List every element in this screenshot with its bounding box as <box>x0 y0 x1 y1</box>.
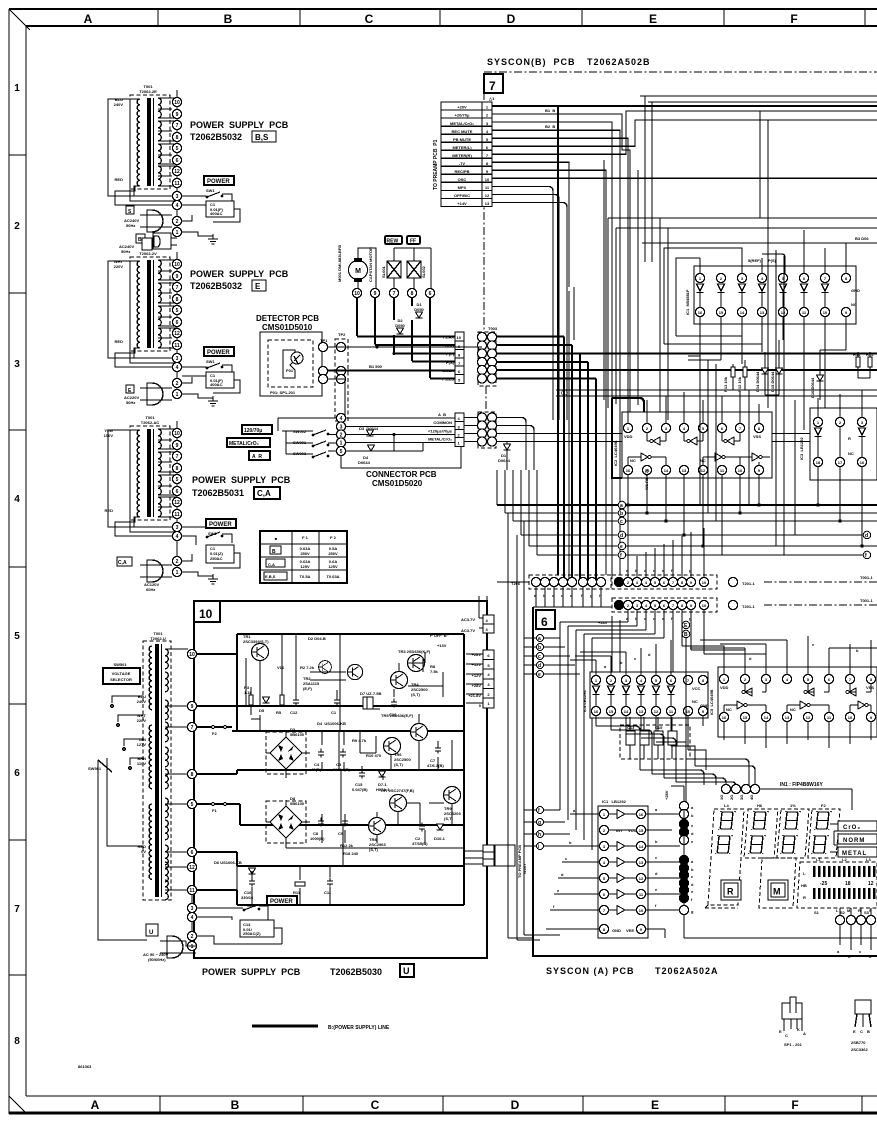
box 6 SYSCON(A) outline <box>533 607 877 976</box>
svg-text:VDD: VDD <box>720 685 729 690</box>
top-right horizontals <box>608 96 877 243</box>
svg-text:8: 8 <box>191 772 194 778</box>
svg-text:47/6.3(B): 47/6.3(B) <box>427 763 444 768</box>
svg-text:REW: REW <box>387 239 399 245</box>
svg-text:SYSCON (A) PCB: SYSCON (A) PCB <box>546 966 635 976</box>
svg-text:IC1 LB1292: IC1 LB1292 <box>602 799 627 804</box>
SYSCON(B) PCB box 7 <box>484 57 877 330</box>
svg-text:U: U <box>149 930 153 936</box>
svg-text:D10-1: D10-1 <box>434 836 446 841</box>
svg-text:TR5 2SD636(E,F): TR5 2SD636(E,F) <box>381 713 414 718</box>
IC1 wiring loops <box>664 230 846 430</box>
IC2 LC4049B <box>612 392 772 555</box>
svg-text:B1 B: B1 B <box>545 108 555 113</box>
svg-text:B: B <box>138 237 142 243</box>
svg-text:METAL/CrO₂: METAL/CrO₂ <box>229 441 259 447</box>
wires from preamp connector <box>492 106 877 575</box>
svg-text:GND: GND <box>700 703 709 708</box>
svg-text:g: g <box>538 820 541 826</box>
svg-text:4G: 4G <box>749 795 754 800</box>
transistor TR2 2SA1115 <box>277 664 363 691</box>
svg-text:B,S: B,S <box>255 133 269 142</box>
svg-text:13: 13 <box>760 310 765 315</box>
svg-text:3G: 3G <box>739 795 744 800</box>
svg-text:7: 7 <box>393 291 396 297</box>
svg-text:e: e <box>620 544 623 550</box>
wire left loop verticals of syscon B interior <box>608 218 616 408</box>
svg-text:6: 6 <box>429 291 432 297</box>
svg-text:2G: 2G <box>729 795 734 800</box>
svg-text:HB: HB <box>801 883 807 888</box>
detector pins <box>318 342 327 351</box>
svg-text:12: 12 <box>806 715 811 720</box>
svg-text:A B: A B <box>438 412 446 417</box>
svg-text:220V: 220V <box>137 718 147 723</box>
svg-text:D050: D050 <box>414 307 424 312</box>
svg-text:(S,T): (S,T) <box>411 692 421 697</box>
IC3 LB1292 <box>799 390 877 548</box>
svg-text:POWER SUPPLY PCB: POWER SUPPLY PCB <box>190 120 289 130</box>
connector table TO PREAMP PCB P1 <box>433 102 492 207</box>
svg-text:(E,F): (E,F) <box>303 686 313 691</box>
svg-text:1%: 1% <box>790 803 796 808</box>
svg-text:SL002: SL002 <box>421 265 426 278</box>
svg-text:B: B <box>684 632 688 638</box>
svg-text:METAL: METAL <box>842 851 867 857</box>
tape counter bars <box>797 857 877 915</box>
plug note B with cover <box>119 233 177 254</box>
svg-text:1: 1 <box>14 83 20 94</box>
svg-text:16: 16 <box>860 460 865 465</box>
transistor D2 D04-B <box>308 636 331 673</box>
box10 misc verticals <box>237 634 464 905</box>
wire row5 <box>492 138 628 575</box>
svg-text:CMS01D5010: CMS01D5010 <box>262 323 313 332</box>
display input pins <box>719 782 852 810</box>
svg-text:17: 17 <box>838 460 843 465</box>
svg-text:R12 2k: R12 2k <box>340 843 354 848</box>
svg-text:POWER: POWER <box>209 522 232 528</box>
svg-text:D2 D04-B: D2 D04-B <box>308 636 326 641</box>
svg-text:M: M <box>355 268 361 275</box>
svg-text:VCC: VCC <box>628 828 637 833</box>
svg-text:2: 2 <box>176 219 179 225</box>
svg-text:F: F <box>791 1098 798 1112</box>
svg-text:+28V: +28V <box>664 790 669 800</box>
svg-text:10: 10 <box>702 580 707 585</box>
transistor package SP1-201 <box>779 997 806 1047</box>
ground <box>208 396 218 406</box>
svg-text:15: 15 <box>719 310 724 315</box>
svg-text:CMS01D5020: CMS01D5020 <box>372 479 423 488</box>
svg-text:POWER SUPPLY PCB: POWER SUPPLY PCB <box>192 475 291 485</box>
svg-text:9: 9 <box>191 704 194 710</box>
svg-text:OFF/B/C: OFF/B/C <box>454 193 470 198</box>
svg-text:0V: 0V <box>141 849 146 854</box>
svg-text:1: 1 <box>176 570 179 576</box>
motor pins <box>352 288 434 297</box>
svg-text:AC3.7V: AC3.7V <box>461 617 475 622</box>
svg-text:CAPSTAN MOTOR: CAPSTAN MOTOR <box>368 247 373 282</box>
signal labels <box>428 412 453 442</box>
svg-text:250V: 250V <box>328 551 338 556</box>
wires cells right <box>464 418 877 471</box>
IC1 bottom resistors diodes <box>723 340 846 400</box>
wire mid right bus <box>608 218 877 243</box>
svg-text:10: 10 <box>823 310 828 315</box>
svg-text:RED: RED <box>105 508 114 513</box>
svg-text:M: M <box>773 887 781 897</box>
svg-text:W1 R5 4.7k: W1 R5 4.7k <box>644 468 649 490</box>
svg-text:D7 UZ-7.5B: D7 UZ-7.5B <box>360 691 381 696</box>
diode D6 row <box>214 860 333 900</box>
detector signal name stack <box>328 332 877 580</box>
svg-text:L1: L1 <box>816 857 821 862</box>
tape type boxes <box>830 821 877 857</box>
svg-text:SELECTOR: SELECTOR <box>110 677 132 682</box>
photo sensor P01 <box>283 350 295 378</box>
connector T206 <box>497 575 611 607</box>
svg-text:+20V: +20V <box>457 105 467 110</box>
svg-text:POWER: POWER <box>207 179 230 185</box>
svg-text:d: d <box>620 533 623 539</box>
svg-text:12: 12 <box>701 468 706 473</box>
wire +28V top right <box>640 96 877 102</box>
svg-text:10: 10 <box>199 607 213 621</box>
svg-text:2: 2 <box>176 559 179 565</box>
svg-text:60Hz: 60Hz <box>146 587 155 592</box>
wires motor pins down <box>357 298 430 379</box>
svg-text:d: d <box>865 533 868 539</box>
svg-text:SW1: SW1 <box>206 359 215 364</box>
svg-text:TO PREAMP PCB P1: TO PREAMP PCB P1 <box>433 139 439 190</box>
svg-text:REC/PB: REC/PB <box>454 169 469 174</box>
svg-text:14: 14 <box>624 709 629 714</box>
POWER box <box>204 347 234 356</box>
svg-text:13: 13 <box>785 715 790 720</box>
svg-text:F1: F1 <box>212 808 217 813</box>
inverters <box>628 432 770 466</box>
svg-text:110V: 110V <box>137 761 146 766</box>
fuse rating table <box>260 531 347 583</box>
svg-text:12: 12 <box>189 865 195 871</box>
svg-text:SW1: SW1 <box>206 188 215 193</box>
svg-text:16: 16 <box>698 310 703 315</box>
svg-text:3: 3 <box>176 525 179 531</box>
svg-text:(50/60Hz): (50/60Hz) <box>148 957 166 962</box>
svg-text:4: 4 <box>14 494 20 505</box>
svg-text:T0.5A: T0.5A <box>300 574 311 579</box>
box6 entry wire fan <box>545 586 766 850</box>
svg-text:A: A <box>84 12 93 26</box>
svg-text:T003: T003 <box>488 326 498 331</box>
svg-text:E: E <box>779 1029 782 1034</box>
svg-text:12: 12 <box>639 876 644 881</box>
svg-text:8: 8 <box>411 291 414 297</box>
svg-text:+13V: +13V <box>437 643 447 648</box>
svg-text:R5: R5 <box>276 710 282 715</box>
small parts row <box>352 770 391 793</box>
svg-text:NORM: NORM <box>843 838 865 844</box>
svg-text:F2: F2 <box>821 803 826 808</box>
wire PSU2 primary loop <box>108 261 172 367</box>
svg-text:13: 13 <box>485 201 490 206</box>
svg-text:C: C <box>785 1033 788 1038</box>
svg-text:L2: L2 <box>842 857 847 862</box>
svg-text:-7V: -7V <box>459 161 466 166</box>
transformer pins (U) <box>187 649 196 950</box>
svg-text:13: 13 <box>682 468 687 473</box>
wire plug to pins <box>147 215 172 227</box>
svg-text:12: 12 <box>654 709 659 714</box>
svg-text:9: 9 <box>374 291 377 297</box>
display drive wire fan <box>596 726 755 785</box>
IC5 LC4049B (box6) <box>690 636 877 748</box>
svg-text:15: 15 <box>609 709 614 714</box>
svg-text:7: 7 <box>489 79 496 93</box>
svg-text:6: 6 <box>541 615 548 629</box>
svg-text:10: 10 <box>189 652 195 658</box>
svg-text:VEE: VEE <box>626 928 634 933</box>
svg-text:c: c <box>538 654 541 660</box>
svg-text:1: 1 <box>176 230 179 236</box>
svg-text:VOLTAGE: VOLTAGE <box>112 671 131 676</box>
svg-text:B:(POWER SUPPLY) LINE: B:(POWER SUPPLY) LINE <box>328 1025 390 1031</box>
svg-text:6: 6 <box>191 850 194 856</box>
svg-text:D5: D5 <box>259 708 265 713</box>
svg-text:3: 3 <box>176 194 179 200</box>
transistor TR6 2SC2500 <box>366 738 444 769</box>
POWER box <box>206 519 236 528</box>
power supply PCB block C,A <box>104 415 291 592</box>
svg-text:POWER SUPPLY PCB: POWER SUPPLY PCB <box>190 269 289 279</box>
svg-text:14: 14 <box>740 310 745 315</box>
svg-text:T201-1: T201-1 <box>742 604 755 609</box>
svg-text:CONNECTOR PCB: CONNECTOR PCB <box>366 470 437 479</box>
svg-text:D050: D050 <box>395 323 405 328</box>
svg-text:METER(R): METER(R) <box>452 153 472 158</box>
svg-text:S2: S2 <box>840 910 846 915</box>
svg-text:2SC3362: 2SC3362 <box>851 1047 868 1052</box>
svg-text:T2062A502B: T2062A502B <box>587 57 651 67</box>
box10 right AC output cells <box>461 596 494 633</box>
svg-text:A: A <box>803 1031 806 1036</box>
svg-text:400AC: 400AC <box>210 211 223 216</box>
svg-text:50Hz: 50Hz <box>121 249 130 254</box>
transistor TR3 2SD636 <box>398 649 439 674</box>
svg-text:M001 DMI-883LBFB: M001 DMI-883LBFB <box>337 245 342 282</box>
svg-text:240V: 240V <box>137 699 147 704</box>
connector T201-1 row1 <box>612 528 877 589</box>
svg-text:18: 18 <box>816 460 821 465</box>
diode D1 D0644 <box>506 442 508 471</box>
svg-text:D16 D0644: D16 D0644 <box>810 377 815 398</box>
svg-text:5: 5 <box>191 802 194 808</box>
svg-text:b: b <box>538 645 541 651</box>
wire left rail of box6 <box>508 513 560 940</box>
grid letters bottom <box>91 1098 799 1112</box>
svg-text:-25: -25 <box>820 881 827 887</box>
svg-text:△1: △1 <box>488 96 495 101</box>
svg-text:T2062B5032: T2062B5032 <box>190 281 242 291</box>
svg-text:D: D <box>507 12 516 26</box>
bus wires a-g <box>497 470 877 559</box>
svg-text:7.5k: 7.5k <box>430 669 439 674</box>
wire horizontals below IC1 <box>556 390 877 396</box>
wire PSU3 primary loop <box>108 430 172 536</box>
svg-text:T2062A502A: T2062A502A <box>655 966 719 976</box>
fuse F1 F2 <box>212 726 227 814</box>
svg-text:NC: NC <box>851 302 857 307</box>
svg-text:8: 8 <box>14 1036 20 1047</box>
svg-text:T2062-U: T2062-U <box>150 636 166 641</box>
svg-text:T2062-2V: T2062-2V <box>139 251 157 256</box>
transistor TR5 2SD636(E,F) <box>381 713 428 741</box>
svg-text:D0644: D0644 <box>498 458 511 463</box>
svg-text:C,A: C,A <box>268 562 275 567</box>
svg-text:4: 4 <box>191 915 194 921</box>
svg-text:R: R <box>848 436 851 441</box>
transformer T001 (U) <box>143 631 188 900</box>
bridge rectifier D3 <box>266 727 310 778</box>
svg-text:CrO₂: CrO₂ <box>843 825 861 831</box>
svg-text:15: 15 <box>743 715 748 720</box>
svg-text:125V: 125V <box>300 564 310 569</box>
junction pin column <box>664 621 877 938</box>
svg-text:12: 12 <box>485 193 490 198</box>
svg-text:T2062B5030: T2062B5030 <box>330 967 382 977</box>
svg-text:10: 10 <box>848 715 853 720</box>
svg-text:1: 1 <box>176 392 179 398</box>
solenoid SL001 REW <box>387 261 401 278</box>
box10 right DC cells <box>466 650 494 708</box>
svg-text:D4 US1006-KB: D4 US1006-KB <box>317 721 346 726</box>
svg-text:D6 US1006-KB: D6 US1006-KB <box>214 860 242 865</box>
svg-text:C15: C15 <box>655 725 663 730</box>
pins 3,4,2,1 <box>172 187 181 237</box>
svg-text:a: a <box>538 636 541 642</box>
svg-text:47/35(B): 47/35(B) <box>412 841 428 846</box>
long vertical bus bundle <box>569 96 795 580</box>
svg-text:6: 6 <box>14 768 20 779</box>
svg-text:2: 2 <box>14 221 20 232</box>
resistor pair right edge <box>853 352 874 378</box>
svg-text:D0644: D0644 <box>358 460 371 465</box>
svg-text:c: c <box>620 519 623 525</box>
svg-text:V16: V16 <box>277 665 285 670</box>
svg-text:D: D <box>511 1098 520 1112</box>
svg-text:16: 16 <box>722 715 727 720</box>
svg-text:F 2: F 2 <box>330 535 337 540</box>
capacitor C1 <box>206 201 234 217</box>
svg-text:A: A <box>91 1098 100 1112</box>
svg-text:+14V: +14V <box>457 201 467 206</box>
svg-text:SP1 - 201: SP1 - 201 <box>784 1042 803 1047</box>
IC2 pin stubs <box>628 392 759 555</box>
svg-text:b: b <box>620 511 623 517</box>
svg-text:IC5 LC4049B: IC5 LC4049B <box>709 689 714 715</box>
diode D4 D0644 <box>368 445 375 451</box>
solenoid SL002 FF <box>407 261 421 278</box>
svg-text:11: 11 <box>189 888 195 894</box>
svg-text:DETECTOR PCB: DETECTOR PCB <box>256 314 319 323</box>
svg-text:VDD: VDD <box>624 434 633 439</box>
caps after D8 <box>310 818 354 849</box>
svg-text:10: 10 <box>457 335 462 340</box>
svg-text:T2062B5032: T2062B5032 <box>190 132 242 142</box>
svg-text:D14 D0644: D14 D0644 <box>755 371 760 392</box>
svg-text:NC: NC <box>692 699 698 704</box>
svg-text:D15 D0644: D15 D0644 <box>770 371 775 392</box>
svg-text:E: E <box>649 12 657 26</box>
svg-text:5: 5 <box>14 631 20 642</box>
box10 internal rails <box>196 634 464 905</box>
svg-text:INT: INT <box>616 828 623 833</box>
svg-text:METER(L): METER(L) <box>452 145 472 150</box>
svg-text:SW501: SW501 <box>88 766 102 771</box>
M dashed + box <box>759 858 796 908</box>
svg-text:220V: 220V <box>114 264 124 269</box>
svg-text:NC: NC <box>726 707 732 712</box>
svg-text:TP2: TP2 <box>338 332 346 337</box>
svg-text:5(REF): 5(REF) <box>748 258 762 263</box>
svg-text:5: 5 <box>340 449 343 455</box>
transistor TR8 2SC2963 <box>343 818 446 857</box>
wire row4 <box>492 130 620 575</box>
svg-text:IC1 M54581P: IC1 M54581P <box>685 289 690 315</box>
svg-text:VSS: VSS <box>753 434 761 439</box>
svg-text:10: 10 <box>738 468 743 473</box>
svg-text:120/70μ: 120/70μ <box>244 428 262 434</box>
svg-text:2: 2 <box>191 934 194 940</box>
svg-text:14: 14 <box>639 844 644 849</box>
svg-text:16: 16 <box>639 812 644 817</box>
wire row2 <box>492 114 630 160</box>
svg-text:C11: C11 <box>324 890 332 895</box>
svg-text:MPX: MPX <box>458 185 467 190</box>
svg-text:4: 4 <box>176 534 179 540</box>
svg-text:IC3 LB1292: IC3 LB1292 <box>799 437 804 460</box>
svg-text:R18 240: R18 240 <box>343 851 359 856</box>
svg-text:SL001: SL001 <box>381 265 386 278</box>
FIP display digits <box>705 803 840 908</box>
svg-text:R10 470: R10 470 <box>366 753 382 758</box>
svg-text:R: R <box>803 895 806 900</box>
svg-text:10: 10 <box>354 291 360 297</box>
IC1 M54581P <box>685 258 860 324</box>
svg-text:E,B,S: E,B,S <box>265 574 276 579</box>
capacitor C1 <box>206 372 234 388</box>
wire row10 <box>492 177 877 179</box>
svg-text:E: E <box>255 282 261 291</box>
seg glyphs <box>715 811 832 854</box>
pin numbers overlay for IC4/IC5/IC1/T201 <box>594 580 873 932</box>
svg-text:TP1: TP1 <box>320 338 328 343</box>
dashed cap box <box>620 717 690 759</box>
wire row6 <box>492 120 877 146</box>
plug C,A <box>117 557 132 566</box>
svg-text:H6: H6 <box>757 803 763 808</box>
svg-text:47(B): 47(B) <box>311 767 322 772</box>
svg-text:GND: GND <box>612 928 621 933</box>
svg-text:C: C <box>371 1098 380 1112</box>
left stubs <box>546 814 599 929</box>
boxed cells <box>455 413 464 422</box>
svg-text:C: C <box>860 1029 863 1034</box>
svg-text:13: 13 <box>639 709 644 714</box>
svg-text:E: E <box>853 1029 856 1034</box>
svg-text:COMMON: COMMON <box>433 420 452 425</box>
